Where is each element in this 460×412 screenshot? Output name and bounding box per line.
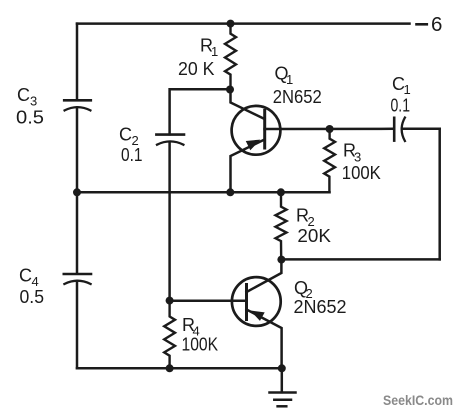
junction dot Q1 emitter / mid rail [226,188,234,196]
svg-text:0.1: 0.1 [391,96,411,116]
capacitor C3 [64,100,91,110]
ground symbol [270,393,296,407]
resistor R2 [276,192,287,259]
wire left rail upper (to C3) [76,24,79,100]
wire R1 bottom node to C2 branch [170,89,230,134]
transistor Q2 base bar [245,285,248,320]
junction dot R4 top / Q2 base node [166,297,174,305]
transistor Q2 base lead wire from R4 node [170,299,247,302]
label C4 [19,266,39,290]
resistor R3 [324,129,335,192]
wire C1 right to corner [403,128,440,131]
svg-text:C: C [119,125,132,145]
svg-text:0.5: 0.5 [16,108,44,128]
svg-text:0.1: 0.1 [121,145,143,165]
transistor Q1 base bar [263,111,266,149]
transistor Q1 emitter arrow (PNP) [247,141,259,150]
svg-text:C: C [19,266,32,286]
junction dot R2 top / mid rail [277,188,285,196]
svg-text:2N652: 2N652 [273,87,322,107]
transistor Q2 circle [232,277,281,326]
svg-text:SeekIC.com: SeekIC.com [383,392,453,408]
junction dot left rail / mid rail [73,188,81,196]
label C2 [119,125,139,149]
junction dot Q2 emitter / ground node [278,364,286,372]
junction dot R1 bottom / Q1 collector node [226,86,234,94]
capacitor C1 [394,118,405,141]
svg-text:C: C [17,85,30,105]
minus sign of -6 supply label [417,23,427,26]
capacitor C4 [64,274,91,284]
svg-text:20 K: 20 K [178,59,215,79]
junction dot R2 bottom / Q2 collector / feedback [277,256,285,264]
wire left rail bottom (C4 to bottom rail) [76,281,79,368]
label R2 [296,206,315,230]
wire left rail middle (C3 to mid rail) [76,107,79,192]
svg-text:6: 6 [431,13,442,36]
wire middle rail [77,191,330,194]
junction dot R4 bottom / bottom rail [166,364,174,372]
junction dot R1 top [227,20,235,28]
svg-text:2N652: 2N652 [294,297,347,317]
label R3 [343,141,361,165]
transistor Q1 emitter lead [231,140,265,193]
label Q1 [275,64,294,88]
label C1 [392,74,411,97]
svg-text:3: 3 [30,94,37,109]
junction dot Q1 base / R3 top node [326,125,334,133]
wire feedback horizontal to R2 bottom node [281,258,439,261]
resistor R4 [164,301,175,369]
transistor Q1 circle [232,106,281,155]
transistor Q2 emitter arrow (PNP) [252,312,263,320]
wire top supply rail [77,22,410,25]
ground stub [281,368,284,392]
svg-text:1: 1 [211,44,218,59]
svg-text:100K: 100K [342,163,381,183]
label R4 [182,315,200,339]
transistor Q2 emitter lead [247,310,282,369]
svg-text:1: 1 [286,72,293,87]
svg-text:20K: 20K [297,226,331,246]
label C3 [17,85,37,109]
wire left rail lower (mid rail to C4) [76,192,79,273]
transistor Q1 collector lead [231,90,265,120]
capacitor C2 [156,135,184,145]
resistor R1 [225,24,236,90]
label Q2 [294,278,313,301]
svg-text:100K: 100K [182,335,219,355]
transistor Q2 collector lead [247,260,282,292]
label R1 [200,36,218,60]
wire Q1 base lead to R3 node and C1 [265,128,393,131]
svg-text:0.5: 0.5 [20,287,45,307]
wire bottom rail [77,367,282,370]
wire right vertical feedback [438,129,441,260]
wire C2 bottom down to Q2 base node (crosses mid rail, no junction) [168,142,171,301]
